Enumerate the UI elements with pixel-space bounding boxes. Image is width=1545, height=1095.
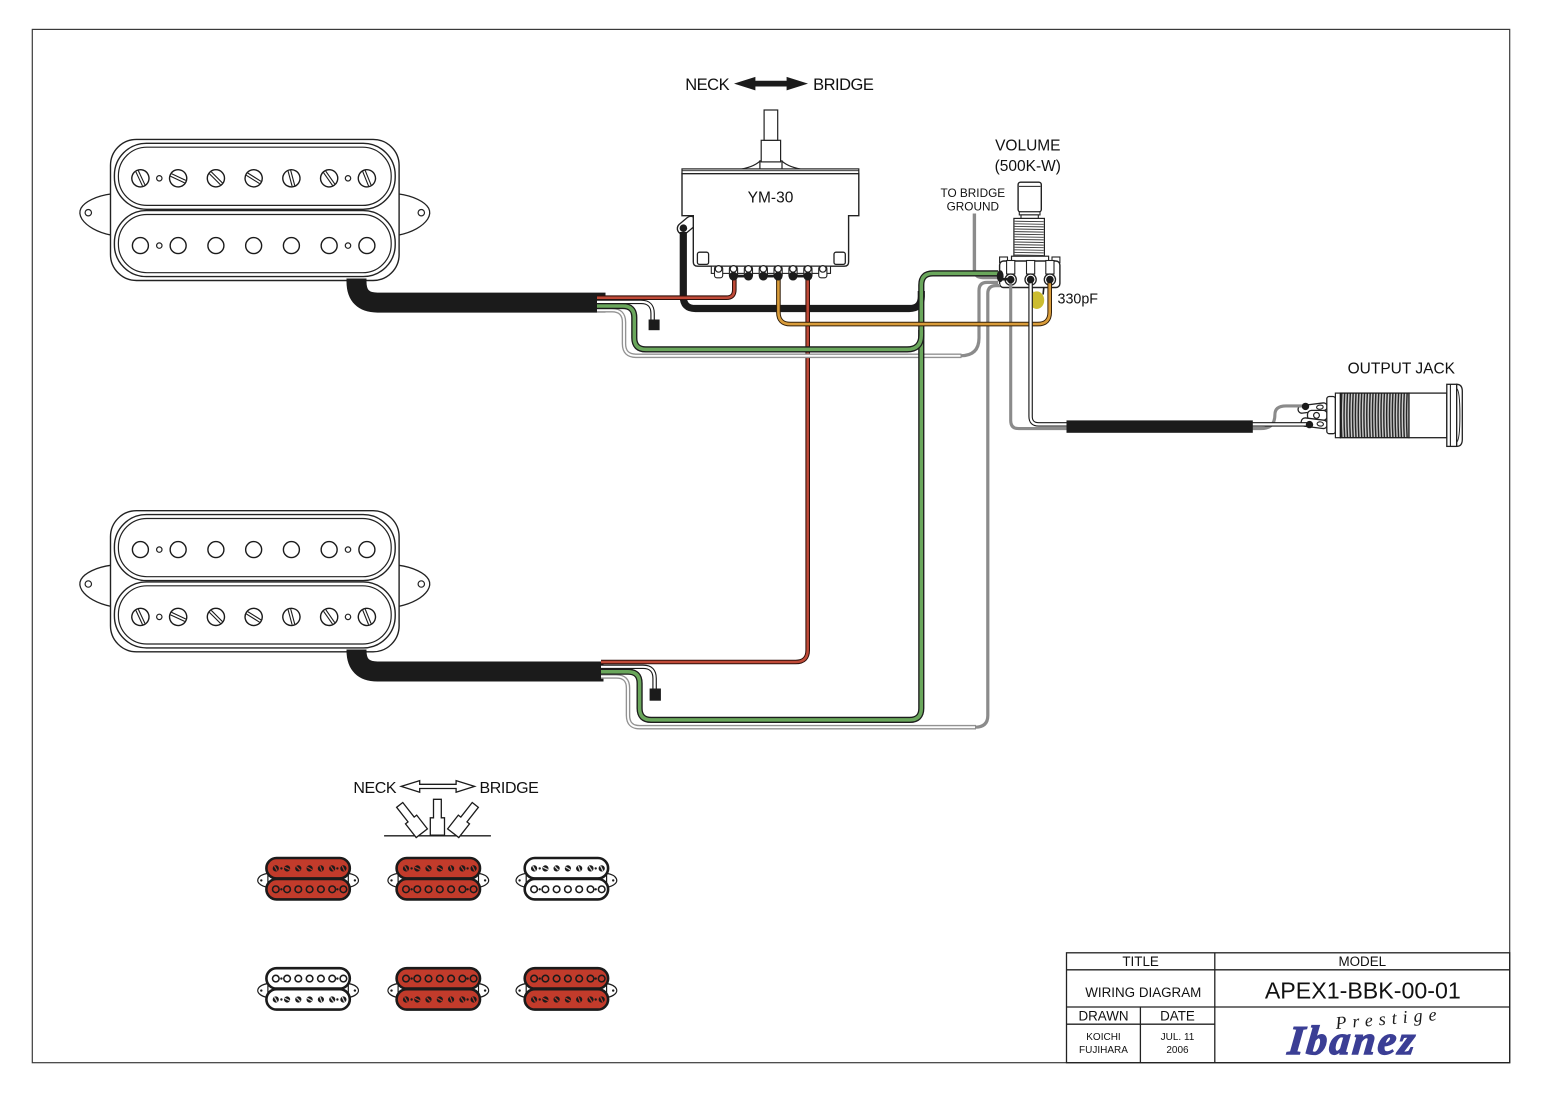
svg-text:WIRING DIAGRAM: WIRING DIAGRAM — [1085, 985, 1201, 1000]
svg-text:FUJIHARA: FUJIHARA — [1079, 1045, 1128, 1056]
svg-text:YM-30: YM-30 — [748, 189, 794, 206]
svg-text:APEX1-BBK-00-01: APEX1-BBK-00-01 — [1265, 977, 1461, 1003]
svg-text:VOLUME: VOLUME — [995, 138, 1060, 155]
svg-text:2006: 2006 — [1166, 1045, 1189, 1056]
svg-text:GROUND: GROUND — [947, 200, 999, 214]
svg-text:KOICHI: KOICHI — [1086, 1032, 1120, 1043]
svg-text:DATE: DATE — [1160, 1009, 1195, 1024]
svg-text:(500K-W): (500K-W) — [995, 158, 1061, 175]
svg-text:TITLE: TITLE — [1122, 954, 1159, 969]
svg-text:BRIDGE: BRIDGE — [480, 780, 539, 797]
svg-text:BRIDGE: BRIDGE — [813, 76, 874, 94]
svg-text:DRAWN: DRAWN — [1078, 1009, 1128, 1024]
svg-text:MODEL: MODEL — [1338, 954, 1386, 969]
svg-text:OUTPUT JACK: OUTPUT JACK — [1348, 361, 1456, 378]
svg-text:NECK: NECK — [353, 780, 397, 797]
svg-text:NECK: NECK — [685, 76, 729, 94]
svg-text:JUL. 11: JUL. 11 — [1161, 1032, 1195, 1043]
svg-text:TO BRIDGE: TO BRIDGE — [940, 186, 1005, 200]
svg-text:330pF: 330pF — [1058, 291, 1099, 307]
